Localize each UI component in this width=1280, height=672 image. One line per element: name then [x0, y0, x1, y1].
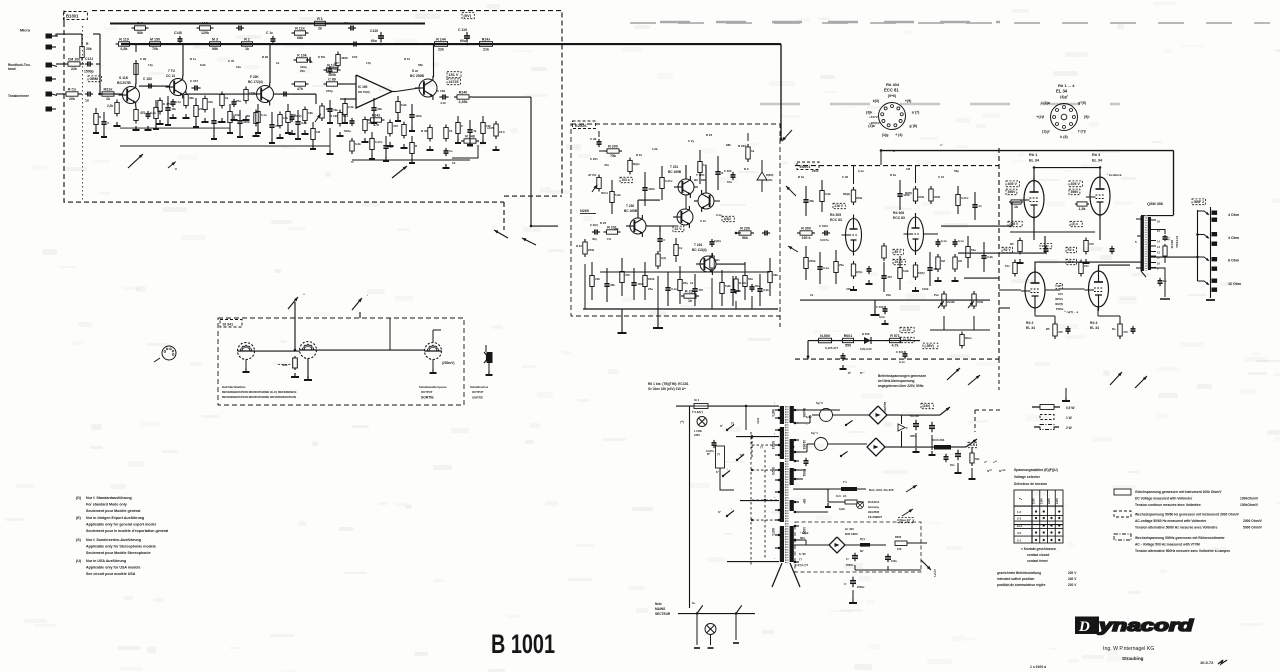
ground comb — [371, 155, 373, 159]
svg-text:4 Ohm: 4 Ohm — [1228, 236, 1239, 240]
resistor R130 h — [324, 69, 327, 71]
svg-text:¹: ¹ — [367, 294, 368, 298]
svg-text:C⁷: C⁷ — [844, 582, 847, 586]
svg-text:50u: 50u — [755, 284, 760, 288]
svg-text:6,8k: 6,8k — [725, 284, 731, 288]
potentiometer bias P300 — [943, 291, 945, 294]
svg-text:C 303: C 303 — [896, 350, 904, 354]
svg-text:SECTEUR: SECTEUR — [655, 612, 671, 616]
svg-text:R Cx: R Cx — [68, 88, 76, 92]
capacitor C — [103, 112, 105, 122]
cathode resistor network V1 — [1019, 238, 1021, 241]
ground comb — [297, 135, 299, 139]
svg-text:(E): (E) — [76, 516, 82, 520]
svg-text:1k: 1k — [159, 109, 163, 113]
resistor R128 — [337, 52, 339, 55]
wire sgl2 to bridge — [868, 414, 870, 416]
svg-text:¹: ¹ — [774, 557, 775, 561]
svg-text:R14x: R14x — [482, 38, 491, 42]
svg-text:22k: 22k — [71, 67, 77, 71]
svg-text:1k: 1k — [473, 129, 477, 133]
capacitor C605 bias — [887, 554, 889, 557]
resistor R reverb — [294, 356, 296, 358]
resistor R132 — [324, 83, 327, 85]
bias enclosure dashed — [795, 522, 921, 572]
svg-text:⁷: ⁷ — [731, 508, 732, 511]
resistor 47k — [621, 258, 623, 272]
svg-text:R601: R601 — [844, 334, 853, 338]
svg-text:R 240: R 240 — [738, 144, 746, 148]
svg-text:f´(7)!: f´(7)! — [1078, 129, 1086, 133]
svg-text:C 1x: C 1x — [266, 31, 273, 35]
speaker jack 16ohm — [1212, 279, 1218, 283]
capacitor R — [717, 156, 719, 172]
speaker jack 4ohm A — [1212, 211, 1218, 215]
svg-text:220k: 220k — [243, 120, 250, 124]
svg-text:2,2k: 2,2k — [107, 104, 113, 108]
svg-text:5,6k: 5,6k — [825, 192, 831, 196]
svg-text:117V: 117V — [756, 418, 760, 424]
svg-text:St 341: St 341 — [223, 323, 234, 327]
svg-text:C 89: C 89 — [328, 78, 336, 82]
wire rect top rail — [793, 409, 840, 411]
resistor R127 — [292, 32, 295, 34]
resistor 0,47u — [371, 132, 373, 139]
svg-text:POSx: POSx — [1056, 307, 1064, 311]
potentiometer bias P301 — [973, 291, 975, 294]
svg-text:470: 470 — [1123, 330, 1128, 334]
wire bias bottom rail — [792, 545, 794, 562]
svg-text:240V: 240V — [1055, 498, 1059, 504]
svg-text:47u: 47u — [604, 163, 609, 167]
svg-text:(250mV): (250mV) — [442, 361, 454, 365]
ground comb — [397, 117, 399, 121]
capacitor 220k — [239, 110, 241, 121]
svg-text:6k²: 6k² — [860, 549, 864, 553]
diode D500 — [864, 337, 871, 344]
svg-text:BC 250B: BC 250B — [410, 74, 424, 78]
capacitor 470 — [694, 274, 696, 289]
svg-text:(¹): (¹) — [799, 557, 802, 561]
wire op out — [396, 88, 419, 92]
selector tap dashes — [752, 444, 779, 446]
boxed voltage 405V left — [1006, 181, 1019, 187]
svg-text:150 k: 150 k — [802, 236, 811, 240]
junction dots amp — [1033, 166, 1035, 168]
svg-text:bei Netz-Nennspannung: bei Netz-Nennspannung — [878, 379, 915, 383]
svg-text:10.3.72: 10.3.72 — [1200, 660, 1214, 665]
svg-text:12 k: 12 k — [499, 130, 505, 134]
svg-text:f.(3)a: f.(3)a — [1041, 101, 1051, 105]
mini legend dashdot symbol — [1040, 425, 1054, 430]
svg-text:470: 470 — [1089, 242, 1094, 246]
ground comb — [312, 145, 314, 149]
speaker jack 4ohm B — [1212, 232, 1218, 236]
tube V305 ECC83 — [846, 219, 862, 252]
svg-text:s⁵: s⁵ — [984, 460, 988, 464]
resistor R131 h — [292, 83, 295, 85]
svg-text:GBF 2: GBF 2 — [1194, 200, 1205, 204]
svg-text:30Ω: 30Ω — [282, 363, 288, 367]
svg-text:9: 9 — [1157, 267, 1159, 271]
label 0V node — [462, 13, 474, 19]
resistor R122 on rail — [239, 43, 242, 45]
svg-text:220k: 220k — [856, 196, 863, 200]
svg-text:25u: 25u — [236, 99, 241, 103]
wire grid bus lower — [999, 307, 1010, 309]
capacitor C303 — [954, 239, 956, 242]
svg-text:Rö 1 ... 4: Rö 1 ... 4 — [1058, 83, 1075, 88]
svg-text:¹¹ ru(T)→ a: ¹¹ ru(T)→ a — [1064, 310, 1079, 314]
svg-text:HEATER: HEATER — [868, 510, 879, 514]
svg-text:110V: 110V — [1032, 498, 1036, 504]
svg-text:1 W: 1 W — [1066, 416, 1072, 420]
svg-text:0871: 0871 — [771, 409, 775, 417]
svg-text:R(I)x: R(I)x — [633, 162, 640, 166]
svg-text:(U): (U) — [76, 559, 82, 563]
wire heater bus — [793, 488, 830, 490]
svg-text:S¹: S¹ — [720, 424, 723, 428]
transistor T232 BC169B — [698, 193, 714, 209]
din socket reverb in — [300, 342, 317, 359]
svg-text:1,2k: 1,2k — [652, 147, 658, 151]
resistor 5,6k — [397, 96, 399, 102]
transistor T233 — [677, 209, 693, 225]
wire stage3 collector — [269, 44, 271, 83]
svg-text:B1301: B1301 — [66, 14, 79, 19]
svg-text:25u: 25u — [683, 281, 688, 285]
wire secondary bottom — [1151, 268, 1165, 297]
svg-text:Straubing: Straubing — [1122, 656, 1144, 661]
capacitor C603 — [957, 450, 959, 454]
transformer secondary tap stubs — [794, 409, 799, 411]
svg-text:Rö 305: Rö 305 — [830, 213, 841, 217]
svg-text:2N 70(9): 2N 70(9) — [358, 90, 370, 94]
svg-text:R140: R140 — [459, 91, 468, 95]
resistor 220k — [644, 262, 646, 276]
svg-text:16(5): 16(5) — [918, 271, 925, 275]
capacitor across winding — [805, 458, 807, 461]
svg-text:M 150: M 150 — [150, 38, 160, 42]
svg-text:50u: 50u — [333, 108, 338, 112]
output transformer secondary bar — [1148, 217, 1151, 270]
svg-text:0,1u: 0,1u — [823, 266, 829, 270]
wire grid feed upper — [941, 225, 1012, 227]
switch Sgl2 switch — [845, 424, 847, 426]
svg-text:0,125 A/T: 0,125 A/T — [825, 346, 838, 350]
svg-text:7 TU: 7 TU — [168, 69, 176, 73]
tube V306 ECC83 — [908, 217, 924, 251]
svg-text:+2(5)5V: +2(5)5V — [869, 121, 880, 125]
svg-text:(0V): (0V) — [464, 13, 472, 18]
svg-text:0071: 0071 — [771, 528, 775, 536]
wire mains top left — [676, 405, 694, 407]
resistor R142b — [445, 125, 447, 128]
ground comb — [482, 139, 484, 143]
svg-text:151 V: 151 V — [449, 73, 459, 77]
ground comb — [385, 157, 387, 161]
svg-text:56k: 56k — [742, 236, 748, 240]
bridge rectifier Gr400 — [829, 537, 845, 553]
svg-text:0823: 0823 — [771, 467, 775, 475]
heater winding circle Sgl2 — [820, 409, 833, 422]
resistor R107 emitter — [135, 107, 137, 110]
wire el34 lower anode join — [1099, 264, 1131, 266]
wire B+ rail upper — [110, 23, 425, 25]
wire ghost segments top — [630, 22, 1270, 24]
capacitor 1n — [974, 192, 976, 205]
mini legend dashed symbol — [1040, 415, 1054, 420]
svg-text:Spannungswähler (E)(F)(U): Spannungswähler (E)(F)(U) — [1014, 468, 1058, 472]
fuse Si3 — [845, 500, 857, 504]
capacitor upper cathode1 — [1045, 246, 1047, 249]
svg-text:470: 470 — [698, 288, 703, 292]
capacitor 470 — [883, 262, 885, 276]
transistor T230 BC169B — [630, 218, 646, 234]
svg-text:Tonabnehmer: Tonabnehmer — [8, 94, 30, 98]
capacitor C — [659, 228, 661, 239]
svg-text:⁶: ⁶ — [727, 468, 729, 471]
wire join bus — [100, 93, 116, 95]
diode D200 — [757, 172, 767, 180]
svg-text:22k: 22k — [199, 107, 204, 111]
svg-text:C 45: C 45 — [228, 59, 234, 63]
transformer shield V — [772, 563, 782, 587]
svg-text:85 V: 85 V — [895, 250, 902, 254]
zener diode Z600 — [898, 424, 905, 431]
svg-text:R 9: R 9 — [744, 167, 749, 171]
svg-text:R 3x: R 3x — [798, 175, 804, 179]
logo Dynacord — [1075, 616, 1194, 635]
capacitor C104 emitter bypass — [147, 111, 149, 114]
ground comb — [229, 129, 231, 133]
svg-text:S 11K: S 11K — [119, 76, 129, 80]
wire secondary RC — [1156, 230, 1165, 235]
switch S10 — [736, 459, 738, 461]
svg-text:216 V: 216 V — [835, 204, 844, 208]
svg-text:(2) x: (2) x — [1072, 222, 1079, 226]
svg-text:AC - Voltage 500 Hz measured: AC - Voltage 500 Hz measured with VTVM — [1135, 543, 1200, 547]
switch S1a — [726, 429, 728, 431]
resistor R117 h — [197, 27, 200, 29]
capacitor C101 on rail — [179, 36, 181, 39]
cathode network V3 — [1085, 238, 1087, 241]
svg-text:C 138: C 138 — [437, 89, 445, 93]
svg-text:C 2(2): C 2(2) — [590, 223, 598, 227]
capacitor C119 rail — [466, 32, 468, 36]
svg-text:R: R — [99, 115, 102, 119]
ground comb — [411, 159, 413, 163]
wire arrows crossing border — [782, 130, 792, 141]
junction dots ps — [745, 405, 747, 407]
wire tube V2 V4 cathode bottom — [1034, 308, 1036, 316]
svg-text:16 Ohm: 16 Ohm — [1228, 282, 1241, 286]
svg-text:0,4(¹)A,(¹)T: 0,4(¹)A,(¹)T — [795, 563, 808, 567]
svg-text:R 144: R 144 — [436, 38, 446, 42]
svg-text:xP 2%: xP 2% — [588, 173, 597, 177]
svg-text:g²(5): g²(5) — [1078, 101, 1087, 105]
ground comb — [329, 119, 331, 123]
resistor R207 out — [736, 232, 739, 234]
mid rail wire — [120, 127, 230, 129]
svg-text:1k: 1k — [679, 246, 683, 250]
capacitor C106 coupling — [191, 87, 195, 89]
svg-text:S-R: S-R — [970, 443, 976, 447]
svg-text:1 150k: 1 150k — [694, 429, 702, 433]
svg-text:120k: 120k — [648, 187, 655, 191]
ground far right stub — [1065, 388, 1067, 398]
resistor R — [411, 136, 413, 143]
wire anodes to transformer lower — [1045, 289, 1060, 291]
svg-text:R15 50: R15 50 — [1170, 240, 1174, 249]
svg-text:4,12: 4,12 — [440, 101, 446, 105]
wire dash stub right — [998, 359, 1000, 390]
svg-text:17p: 17p — [366, 61, 371, 65]
svg-text:FILAMENT: FILAMENT — [868, 515, 882, 519]
svg-text:120k: 120k — [201, 31, 209, 35]
wire poweramp gnd stub — [657, 309, 659, 325]
svg-text:R600: R600 — [895, 535, 902, 539]
svg-text:T 234: T 234 — [694, 243, 702, 247]
svg-text:(⁴): (⁴) — [760, 445, 763, 449]
wire anode top link — [1034, 168, 1100, 187]
svg-text:11: 11 — [1157, 256, 1160, 260]
wire heater bus2 — [799, 511, 828, 513]
wire mains line — [678, 613, 755, 615]
capacitor C108 — [291, 114, 293, 117]
svg-text:Pxx: Pxx — [934, 293, 939, 297]
wire bias feed line — [808, 340, 920, 342]
resistor R126 — [294, 59, 297, 61]
resistor R116 long — [245, 87, 247, 90]
capacitor C606 below — [852, 577, 854, 581]
resistor R615 — [1164, 244, 1166, 246]
svg-text:1(2): 1(2) — [661, 256, 666, 260]
capacitor 1n — [385, 136, 387, 146]
boxed voltage lower left — [1002, 247, 1012, 252]
svg-text:QSM 306: QSM 306 — [1147, 202, 1163, 206]
svg-text:R 30: R 30 — [421, 129, 428, 133]
svg-text:R: R — [86, 42, 89, 46]
capacitor 33k — [373, 98, 375, 108]
svg-text:Si 1: Si 1 — [694, 398, 700, 402]
resistor 2,2k — [344, 98, 346, 104]
svg-text:6,3u: 6,3u — [150, 111, 156, 115]
svg-text:33k: 33k — [189, 96, 194, 100]
ground comb — [344, 119, 346, 123]
wire primary feeds — [746, 405, 779, 407]
wire bias wiring — [793, 544, 829, 546]
capacitor C122 — [85, 93, 88, 95]
svg-text:R 23: R 23 — [706, 133, 712, 137]
svg-text:1k: 1k — [245, 47, 249, 51]
tube V3 EL34 — [1090, 177, 1110, 215]
switch S1b — [722, 475, 724, 477]
svg-text:EL 34: EL 34 — [1026, 326, 1035, 330]
svg-text:6,8k: 6,8k — [301, 121, 307, 125]
svg-text:R9xx: R9xx — [965, 336, 972, 340]
capacitor 50u — [329, 100, 331, 109]
resistor R202 — [604, 231, 607, 233]
label bias box — [898, 518, 913, 523]
capacitor C120 rail — [380, 32, 382, 36]
resistor R205 fb — [681, 295, 684, 297]
resistor 0,1u — [257, 104, 259, 112]
svg-text:2000 Ohm/V: 2000 Ohm/V — [1243, 519, 1263, 523]
switch arrow reverb2 — [352, 298, 362, 310]
wire ps top rail extension — [900, 409, 906, 411]
transistor T105 right — [309, 59, 311, 61]
svg-text:¹¹: ¹¹ — [303, 293, 305, 297]
mains transformer primary winding — [780, 406, 784, 424]
svg-text:S₂: S₂ — [692, 601, 696, 605]
svg-text:1n: 1n — [978, 204, 982, 208]
potentiometer P101 treble — [321, 103, 323, 106]
wire bias feedline — [799, 539, 806, 541]
svg-text:5-1: 5-1 — [1017, 539, 1021, 543]
svg-text:25u: 25u — [886, 293, 891, 297]
svg-text:10: 10 — [1157, 262, 1160, 266]
wire driver links — [646, 225, 660, 227]
svg-text:BC 169B: BC 169B — [624, 209, 638, 213]
boxed label 405V mid — [1040, 244, 1052, 249]
svg-text:2-3: 2-3 — [1017, 517, 1021, 521]
svg-text:R5: R5 — [1046, 327, 1050, 331]
svg-text:See circuit pour modèle USA: See circuit pour modèle USA — [86, 572, 136, 576]
svg-text:E2026: E2026 — [575, 123, 587, 128]
svg-text:R9(2): R9(2) — [843, 192, 850, 196]
svg-text:50u: 50u — [950, 463, 955, 467]
label GBF2 — [1192, 199, 1205, 205]
tube V4 EL34 — [1089, 271, 1109, 307]
svg-text:470: 470 — [291, 113, 296, 117]
svg-text:220 V: 220 V — [1068, 571, 1077, 575]
fuse Si1 — [694, 404, 708, 409]
wire driver top entry — [598, 131, 600, 137]
resistor 0,47u — [957, 186, 959, 195]
svg-text:100k: 100k — [233, 113, 240, 117]
svg-text:6,3k: 6,3k — [355, 142, 361, 146]
svg-text:C 99: C 99 — [140, 57, 146, 61]
wire dash stub mid — [779, 316, 781, 330]
boxed label -55V — [923, 343, 938, 349]
svg-text:gezeichnete Betriebsstellung: gezeichnete Betriebsstellung — [997, 571, 1041, 575]
speaker terminal strip line — [1210, 207, 1212, 298]
resistor R602 — [971, 450, 973, 453]
svg-text:R 12x: R 12x — [295, 27, 305, 31]
capacitor 6,8k — [297, 110, 299, 122]
svg-text:Applicable only for general ex: Applicable only for general export model — [86, 523, 156, 527]
resistor R204 — [711, 253, 713, 256]
svg-text:25u: 25u — [300, 69, 305, 73]
ground comb — [373, 119, 375, 123]
grid resistors lower tubes — [1014, 260, 1016, 263]
cathode resistor V2/V4 bottom — [1054, 321, 1056, 324]
svg-text:a´(7): a´(7) — [912, 111, 920, 115]
bridge rectifier Gr2 — [867, 438, 885, 456]
svg-text:¹ K612: ¹ K612 — [800, 531, 809, 535]
svg-text:1k: 1k — [276, 61, 280, 65]
svg-text:22k: 22k — [610, 283, 615, 287]
svg-text:50k: 50k — [975, 457, 980, 461]
svg-text:ECC 83: ECC 83 — [893, 216, 905, 220]
svg-text:¹ Zu Block: ¹ Zu Block — [1107, 173, 1122, 177]
opamp K160 triangle — [356, 75, 392, 108]
capacitor C103 — [145, 85, 149, 87]
reverb enclosure dashed — [218, 318, 464, 405]
resistor NTC — [716, 446, 725, 468]
svg-text:10u: 10u — [727, 180, 732, 184]
